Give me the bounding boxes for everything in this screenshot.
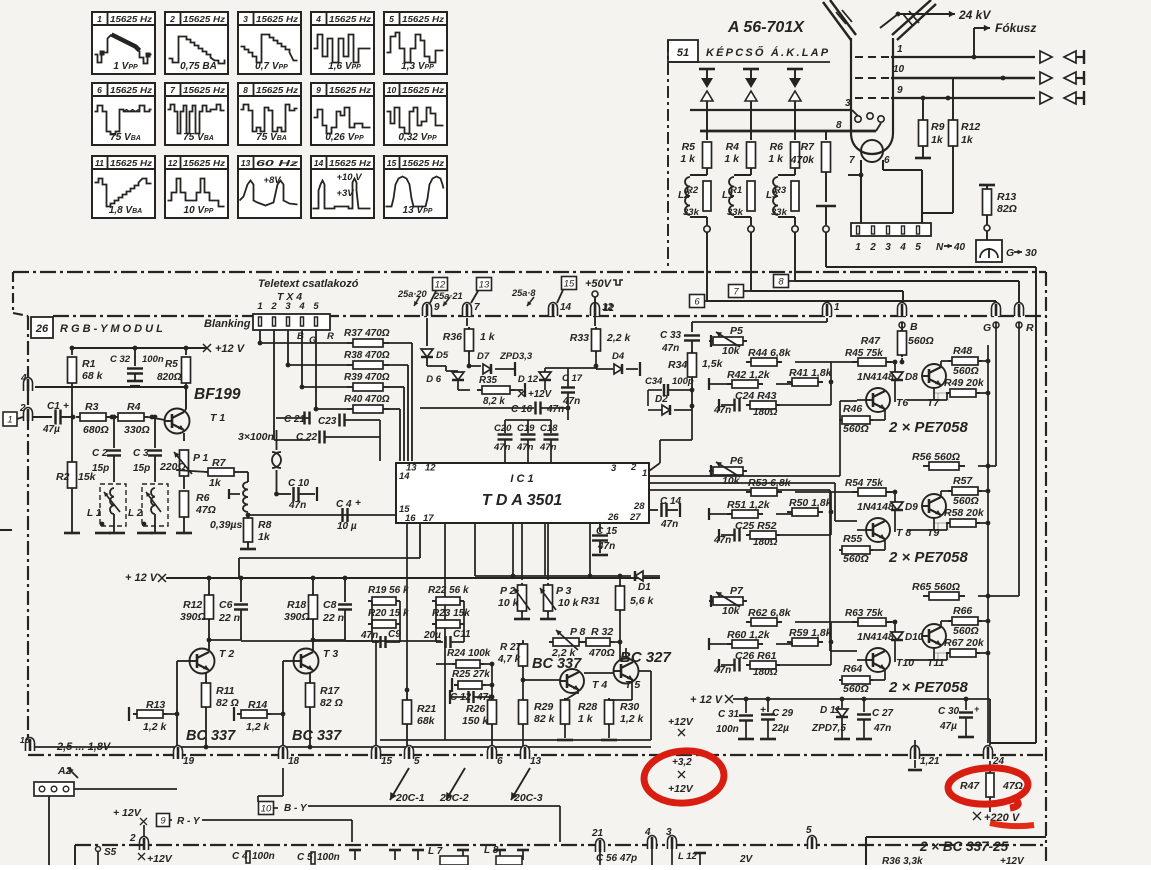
svg-text:Blanking: Blanking	[204, 318, 251, 330]
svg-text:7: 7	[474, 302, 480, 313]
svg-text:25a·8: 25a·8	[511, 288, 536, 298]
left edge stub	[0, 529, 12, 531]
wire y558	[239, 557, 420, 559]
svg-text:KÉPCSŐ Á.K.LAP: KÉPCSŐ Á.K.LAP	[706, 46, 830, 59]
op-amp IC1 TDA 3501	[396, 463, 649, 523]
svg-text:R6: R6	[770, 141, 784, 153]
svg-text:C 17: C 17	[562, 373, 583, 384]
svg-text:+3,2: +3,2	[672, 757, 692, 768]
svg-text:15625 Hz: 15625 Hz	[329, 158, 372, 168]
svg-text:47n: 47n	[873, 723, 891, 734]
svg-text:L 8: L 8	[484, 845, 499, 856]
boxed connector 8	[774, 275, 789, 288]
svg-text:9: 9	[897, 85, 903, 96]
svg-text:2,2 k: 2,2 k	[551, 647, 577, 659]
svg-text:P6: P6	[730, 455, 743, 467]
svg-text:0,39µs: 0,39µs	[210, 519, 242, 531]
svg-text:22 n: 22 n	[218, 612, 240, 624]
svg-text:C6: C6	[219, 599, 233, 611]
svg-text:C8: C8	[323, 599, 337, 611]
svg-text:470Ω: 470Ω	[588, 647, 615, 659]
coupling symbol	[272, 452, 281, 468]
svg-text:6: 6	[497, 756, 503, 767]
svg-text:27: 27	[629, 512, 641, 523]
svg-text:2 × BC 337-25: 2 × BC 337-25	[919, 839, 1009, 854]
svg-text:D5: D5	[436, 350, 449, 361]
svg-text:47n: 47n	[546, 404, 564, 415]
terminal 19 (module bottom)	[174, 746, 183, 760]
svg-text:33k: 33k	[727, 207, 744, 218]
svg-text:47n: 47n	[660, 519, 678, 530]
svg-text:10 µ: 10 µ	[337, 521, 357, 532]
terminal R	[1015, 303, 1024, 317]
svg-text:15: 15	[381, 756, 393, 767]
waveform box 10	[384, 83, 447, 145]
cathode row 9	[855, 97, 891, 99]
svg-text:+10 V: +10 V	[336, 172, 362, 183]
svg-text:3: 3	[285, 301, 291, 312]
wire channel junction	[795, 621, 831, 623]
svg-text:15625 Hz: 15625 Hz	[183, 158, 226, 168]
terminal 24 (module bottom)	[984, 746, 993, 760]
wire T3 base / bubble 18	[283, 660, 294, 662]
capacitor C1 47u	[33, 416, 52, 418]
svg-text:10 k: 10 k	[558, 597, 580, 609]
svg-text:R4: R4	[127, 401, 141, 413]
svg-text:D 12: D 12	[518, 374, 539, 385]
svg-text:1,21: 1,21	[920, 756, 940, 767]
svg-text:15625 Hz: 15625 Hz	[402, 158, 445, 168]
svg-text:680Ω: 680Ω	[83, 424, 109, 436]
resistor R7 1k (module)	[176, 470, 207, 472]
svg-text:12: 12	[425, 463, 436, 474]
svg-text:560Ω: 560Ω	[908, 335, 934, 347]
resistor R21 68k	[406, 690, 408, 700]
svg-text:15625 Hz: 15625 Hz	[256, 14, 299, 24]
svg-text:+12V: +12V	[528, 389, 553, 400]
svg-text:+12 V: +12 V	[215, 343, 246, 355]
svg-text:C 14: C 14	[660, 496, 682, 507]
svg-text:1: 1	[834, 302, 840, 313]
svg-text:R - Y: R - Y	[177, 816, 201, 827]
svg-text:12: 12	[168, 158, 178, 168]
terminal 9 (module top)	[423, 303, 432, 317]
meter G-30	[976, 240, 1002, 262]
svg-text:C 31: C 31	[718, 709, 740, 720]
wire channel junction	[795, 361, 831, 363]
potentiometer P3 10k	[547, 523, 549, 580]
wire terminal4 to collector	[35, 386, 186, 388]
svg-text:C18: C18	[540, 423, 558, 434]
svg-text:R40 470Ω: R40 470Ω	[344, 394, 390, 405]
svg-text:R47: R47	[861, 335, 881, 347]
svg-text:2: 2	[19, 403, 26, 414]
svg-text:R26: R26	[466, 703, 485, 715]
capacitor C2 15p	[112, 415, 117, 420]
electrode column / resistor R4 1 k	[743, 68, 759, 71]
boxed connector 15	[562, 277, 577, 290]
strip grounds	[354, 850, 356, 860]
svg-text:BC 327: BC 327	[620, 649, 672, 666]
svg-text:560Ω: 560Ω	[843, 423, 869, 435]
svg-text:68 k: 68 k	[82, 370, 104, 382]
boxed connector 13	[477, 278, 492, 291]
transistor T 8	[866, 518, 890, 542]
svg-text:+12V: +12V	[668, 783, 694, 795]
svg-text:40: 40	[953, 242, 966, 253]
svg-text:47n: 47n	[661, 343, 679, 354]
svg-text:+: +	[974, 704, 980, 714]
waveform box 7	[165, 83, 228, 145]
svg-text:15625 Hz: 15625 Hz	[110, 158, 153, 168]
svg-text:D1: D1	[638, 582, 651, 593]
svg-text:20µ: 20µ	[423, 630, 441, 641]
terminal 12 (module top)	[591, 303, 600, 317]
svg-text:10k: 10k	[722, 345, 741, 357]
svg-text:T 2: T 2	[219, 648, 234, 660]
svg-text:T6: T6	[896, 397, 908, 409]
svg-text:4,7 k: 4,7 k	[497, 654, 521, 665]
svg-text:R55: R55	[843, 533, 862, 545]
svg-text:16: 16	[405, 513, 416, 524]
resistor R18 390 ohm	[311, 576, 316, 581]
grid line 8	[700, 130, 876, 133]
svg-text:R17: R17	[320, 685, 340, 697]
svg-text:C 3: C 3	[133, 448, 149, 459]
svg-text:2,2 k: 2,2 k	[606, 332, 632, 344]
svg-text:15p: 15p	[133, 463, 150, 474]
deflection arrow pair y=98	[1040, 92, 1052, 104]
svg-text:+ 12V: + 12V	[113, 807, 142, 819]
svg-text:18: 18	[288, 756, 300, 767]
svg-text:9: 9	[434, 302, 440, 313]
svg-text:390Ω: 390Ω	[284, 611, 310, 623]
svg-text:82Ω: 82Ω	[997, 203, 1017, 215]
collector wires to ladders	[241, 640, 370, 642]
page border top (dash-dot)	[13, 271, 1046, 273]
svg-text:T11: T11	[927, 657, 944, 669]
resistor R17 82 ohm	[309, 672, 311, 682]
svg-text:2: 2	[169, 14, 175, 24]
resistor R13 82 ohm	[986, 185, 988, 190]
resistor R30 1,2k	[605, 700, 614, 724]
svg-text:T D A 3501: T D A 3501	[482, 492, 563, 509]
svg-text:1,5k: 1,5k	[702, 358, 724, 370]
svg-text:+3V: +3V	[336, 188, 354, 199]
waveform box 13	[238, 156, 301, 218]
svg-text:5: 5	[389, 14, 394, 24]
L1 tuned coil (dashed box)	[100, 484, 126, 526]
terminal 7 (module top)	[463, 303, 472, 317]
svg-text:4: 4	[20, 373, 27, 384]
svg-text:1 k: 1 k	[480, 331, 496, 343]
transistor T2 BC337	[190, 649, 215, 674]
svg-text:1N4148: 1N4148	[857, 631, 894, 643]
terminal 6 (module bottom)	[488, 746, 497, 760]
parallel network L3 / R3 33k	[778, 174, 795, 176]
svg-text:R25 27k: R25 27k	[452, 669, 490, 680]
terminal 1,21 (module bottom)	[911, 746, 920, 760]
svg-text:22 n: 22 n	[322, 612, 344, 624]
transistor T11	[922, 624, 946, 648]
svg-text:560Ω: 560Ω	[953, 365, 979, 377]
svg-text:R39 470Ω: R39 470Ω	[344, 372, 390, 383]
waveform box 3	[238, 12, 301, 74]
waveform box 4	[311, 12, 374, 74]
svg-text:R3: R3	[774, 185, 787, 196]
boxed connector 7	[729, 285, 744, 298]
svg-text:+12V: +12V	[147, 853, 173, 865]
svg-text:R5: R5	[165, 359, 178, 370]
svg-text:R9: R9	[931, 121, 945, 133]
svg-text:1,2 k: 1,2 k	[246, 721, 271, 733]
+12V mark strip	[138, 853, 145, 860]
middle electrode	[816, 205, 836, 208]
svg-text:R46: R46	[843, 403, 862, 415]
svg-text:Fókusz: Fókusz	[995, 21, 1036, 35]
svg-text:2 × PE7058: 2 × PE7058	[888, 419, 968, 436]
svg-text:C 16: C 16	[511, 404, 533, 415]
svg-text:R49 20k: R49 20k	[944, 377, 985, 389]
svg-text:1N4148: 1N4148	[857, 371, 894, 383]
svg-text:15625 Hz: 15625 Hz	[329, 14, 372, 24]
boxed connector 6	[690, 295, 705, 308]
svg-text:P5: P5	[730, 325, 743, 337]
waveform box 1	[92, 12, 155, 74]
svg-text:0,75 BA: 0,75 BA	[180, 61, 217, 72]
svg-text:R 32: R 32	[591, 626, 613, 638]
svg-text:820Ω: 820Ω	[157, 372, 182, 383]
svg-text:10k: 10k	[722, 475, 741, 487]
R-Y wire	[157, 814, 170, 827]
+220V label	[973, 812, 981, 820]
deflection arrow pair y=78	[1040, 72, 1052, 84]
waveform box 9	[311, 83, 374, 145]
svg-text:1 k: 1 k	[578, 713, 594, 725]
24 kV lead	[896, 12, 901, 17]
L2 tuned coil (dashed box)	[142, 484, 168, 526]
feed wire net (CRT columns to module B/G/R)	[706, 270, 708, 301]
svg-text:C 2: C 2	[92, 448, 108, 459]
svg-text:33k: 33k	[771, 207, 788, 218]
svg-text:8,2 k: 8,2 k	[483, 396, 505, 407]
svg-text:47n: 47n	[516, 442, 534, 453]
svg-text:5,6 k: 5,6 k	[630, 595, 655, 607]
svg-text:14: 14	[560, 302, 572, 313]
svg-text:1: 1	[897, 44, 903, 55]
resistor R28 1k	[577, 690, 579, 694]
svg-text:R36: R36	[443, 331, 462, 343]
svg-text:R24 100k: R24 100k	[447, 648, 491, 659]
waveform box 6	[92, 83, 155, 145]
svg-text:C 22: C 22	[296, 432, 318, 443]
svg-text:100n: 100n	[317, 852, 340, 863]
svg-text:C 30: C 30	[938, 706, 960, 717]
resistor R12 390 ohm	[207, 576, 212, 581]
svg-text:R11: R11	[216, 685, 235, 697]
waveform box 12	[165, 156, 228, 218]
svg-text:C 27: C 27	[872, 708, 894, 719]
svg-text:R5: R5	[682, 141, 696, 153]
svg-text:R4: R4	[726, 141, 740, 153]
svg-text:16: 16	[20, 735, 30, 745]
svg-text:R8: R8	[258, 519, 272, 531]
svg-text:12: 12	[603, 303, 615, 314]
resistor R31 5,6k	[619, 576, 621, 584]
svg-text:6: 6	[694, 297, 700, 308]
terminal B	[898, 303, 907, 317]
wire bubble15	[375, 640, 377, 749]
waveform box 5	[384, 12, 447, 74]
svg-text:R36 3,3k: R36 3,3k	[882, 856, 923, 865]
svg-text:3: 3	[885, 242, 891, 253]
svg-text:1: 1	[97, 14, 102, 24]
svg-text:P 3: P 3	[556, 585, 572, 597]
svg-text:1: 1	[257, 301, 262, 312]
CRT funnel	[823, 2, 851, 40]
resistor R26 150k	[491, 664, 493, 700]
diode D1	[635, 571, 643, 581]
svg-text:14: 14	[399, 471, 410, 482]
svg-text:R18: R18	[287, 599, 306, 611]
svg-text:10 k: 10 k	[498, 597, 520, 609]
svg-text:D10: D10	[905, 632, 924, 643]
terminal 4	[24, 378, 33, 391]
svg-text:R67 20k: R67 20k	[944, 637, 985, 649]
svg-text:4: 4	[899, 242, 906, 253]
svg-text:10k: 10k	[722, 605, 741, 617]
svg-text:13: 13	[530, 756, 542, 767]
deflection arrow pair y=57	[1040, 51, 1052, 63]
svg-text:25a·20: 25a·20	[397, 289, 427, 299]
svg-text:47n: 47n	[539, 442, 557, 453]
svg-text:C 4: C 4	[336, 499, 352, 510]
svg-text:R48: R48	[953, 345, 972, 357]
svg-text:C20: C20	[494, 423, 512, 434]
svg-text:47n: 47n	[360, 630, 378, 641]
box 51 KEPCSO A.K.LAP	[668, 40, 698, 62]
waveform box 15	[384, 156, 447, 218]
svg-text:47µ: 47µ	[42, 424, 60, 435]
svg-text:15p: 15p	[92, 463, 109, 474]
20C-1 arrow	[390, 768, 409, 800]
svg-text:D4: D4	[612, 351, 625, 362]
resistor R36 1k	[466, 318, 468, 326]
svg-text:2: 2	[129, 833, 136, 844]
transistor T4	[560, 669, 584, 693]
svg-text:82 Ω: 82 Ω	[216, 697, 239, 709]
svg-text:G: G	[983, 322, 991, 334]
svg-text:21: 21	[591, 828, 604, 839]
+12V rail (input stage)	[72, 347, 208, 349]
svg-text:R2: R2	[56, 471, 70, 483]
svg-text:+12V: +12V	[1000, 856, 1025, 865]
+12V mark mid	[518, 390, 525, 397]
resistor R9 1k	[922, 98, 924, 120]
svg-text:A 56-701X: A 56-701X	[727, 19, 805, 36]
svg-text:S5: S5	[104, 847, 117, 858]
potentiometer P2 10k	[521, 523, 523, 580]
resistor R1 68k	[71, 348, 73, 355]
svg-text:R31: R31	[581, 595, 600, 607]
potentiometer P1 220 ohm	[183, 433, 185, 441]
svg-text:C 32: C 32	[110, 354, 131, 365]
wire T2 base / bubble 19	[177, 660, 190, 662]
B-Y wire	[259, 802, 274, 815]
svg-text:26: 26	[607, 512, 619, 523]
svg-text:BC 337: BC 337	[292, 728, 342, 744]
resistor R7 470k (CRT)	[825, 131, 827, 140]
svg-text:51: 51	[677, 47, 689, 59]
svg-text:3: 3	[845, 98, 851, 109]
svg-text:1k: 1k	[258, 531, 271, 543]
svg-text:6: 6	[884, 155, 890, 166]
svg-text:15625 Hz: 15625 Hz	[110, 85, 153, 95]
svg-text:82 Ω: 82 Ω	[320, 697, 343, 709]
svg-text:ZPD7,5: ZPD7,5	[811, 723, 846, 734]
capacitor C14 47n	[649, 509, 658, 511]
svg-text:17: 17	[423, 513, 434, 524]
svg-text:15625 Hz: 15625 Hz	[402, 14, 445, 24]
transistor T3 BC337	[294, 649, 319, 674]
svg-text:7: 7	[849, 155, 855, 166]
svg-text:47Ω: 47Ω	[195, 504, 216, 516]
svg-text:100p: 100p	[672, 376, 694, 387]
svg-text:R29: R29	[534, 701, 553, 713]
svg-text:28: 28	[633, 501, 645, 512]
wire IC pin16 down to R21	[406, 523, 408, 690]
svg-text:N: N	[936, 242, 944, 253]
svg-text:C1: C1	[47, 401, 60, 412]
wire channel junction	[795, 491, 831, 493]
electrode column / resistor R6 1 k	[787, 68, 803, 71]
svg-text:180Ω: 180Ω	[753, 667, 778, 678]
svg-text:R64: R64	[843, 663, 862, 675]
CRT neck and gun	[851, 38, 893, 154]
svg-text:G: G	[1006, 247, 1014, 259]
svg-text:R13: R13	[997, 191, 1016, 203]
svg-text:82 k: 82 k	[534, 713, 556, 725]
svg-text:20C-1: 20C-1	[395, 792, 425, 804]
svg-text:15625 Hz: 15625 Hz	[402, 85, 445, 95]
wire T5 output loop	[638, 670, 651, 672]
capacitor C10 47n	[277, 493, 292, 495]
svg-text:15625 Hz: 15625 Hz	[329, 85, 372, 95]
svg-text:R58 20k: R58 20k	[944, 507, 985, 519]
svg-text:100n: 100n	[716, 724, 739, 735]
svg-text:B: B	[297, 331, 304, 342]
svg-text:1,2 k: 1,2 k	[143, 721, 168, 733]
svg-text:47n: 47n	[562, 396, 580, 407]
svg-text:+: +	[355, 498, 361, 509]
svg-text:33k: 33k	[683, 207, 700, 218]
module id box 26	[31, 317, 53, 338]
svg-text:60 Hz: 60 Hz	[256, 158, 300, 168]
resistor R29 82k	[522, 680, 524, 700]
svg-text:150 k: 150 k	[462, 715, 489, 727]
svg-text:R66: R66	[953, 605, 972, 617]
svg-text:Teletext csatlakozó: Teletext csatlakozó	[258, 278, 359, 290]
CRT socket connector N-40	[851, 223, 931, 236]
svg-text:R47: R47	[960, 780, 980, 792]
svg-text:7: 7	[733, 287, 739, 298]
svg-text:C19: C19	[517, 423, 535, 434]
svg-text:15625 Hz: 15625 Hz	[256, 85, 299, 95]
svg-text:47Ω: 47Ω	[1002, 780, 1023, 792]
waveform box 14	[311, 156, 374, 218]
svg-text:C 21: C 21	[284, 414, 306, 425]
svg-text:R: R	[327, 331, 334, 342]
